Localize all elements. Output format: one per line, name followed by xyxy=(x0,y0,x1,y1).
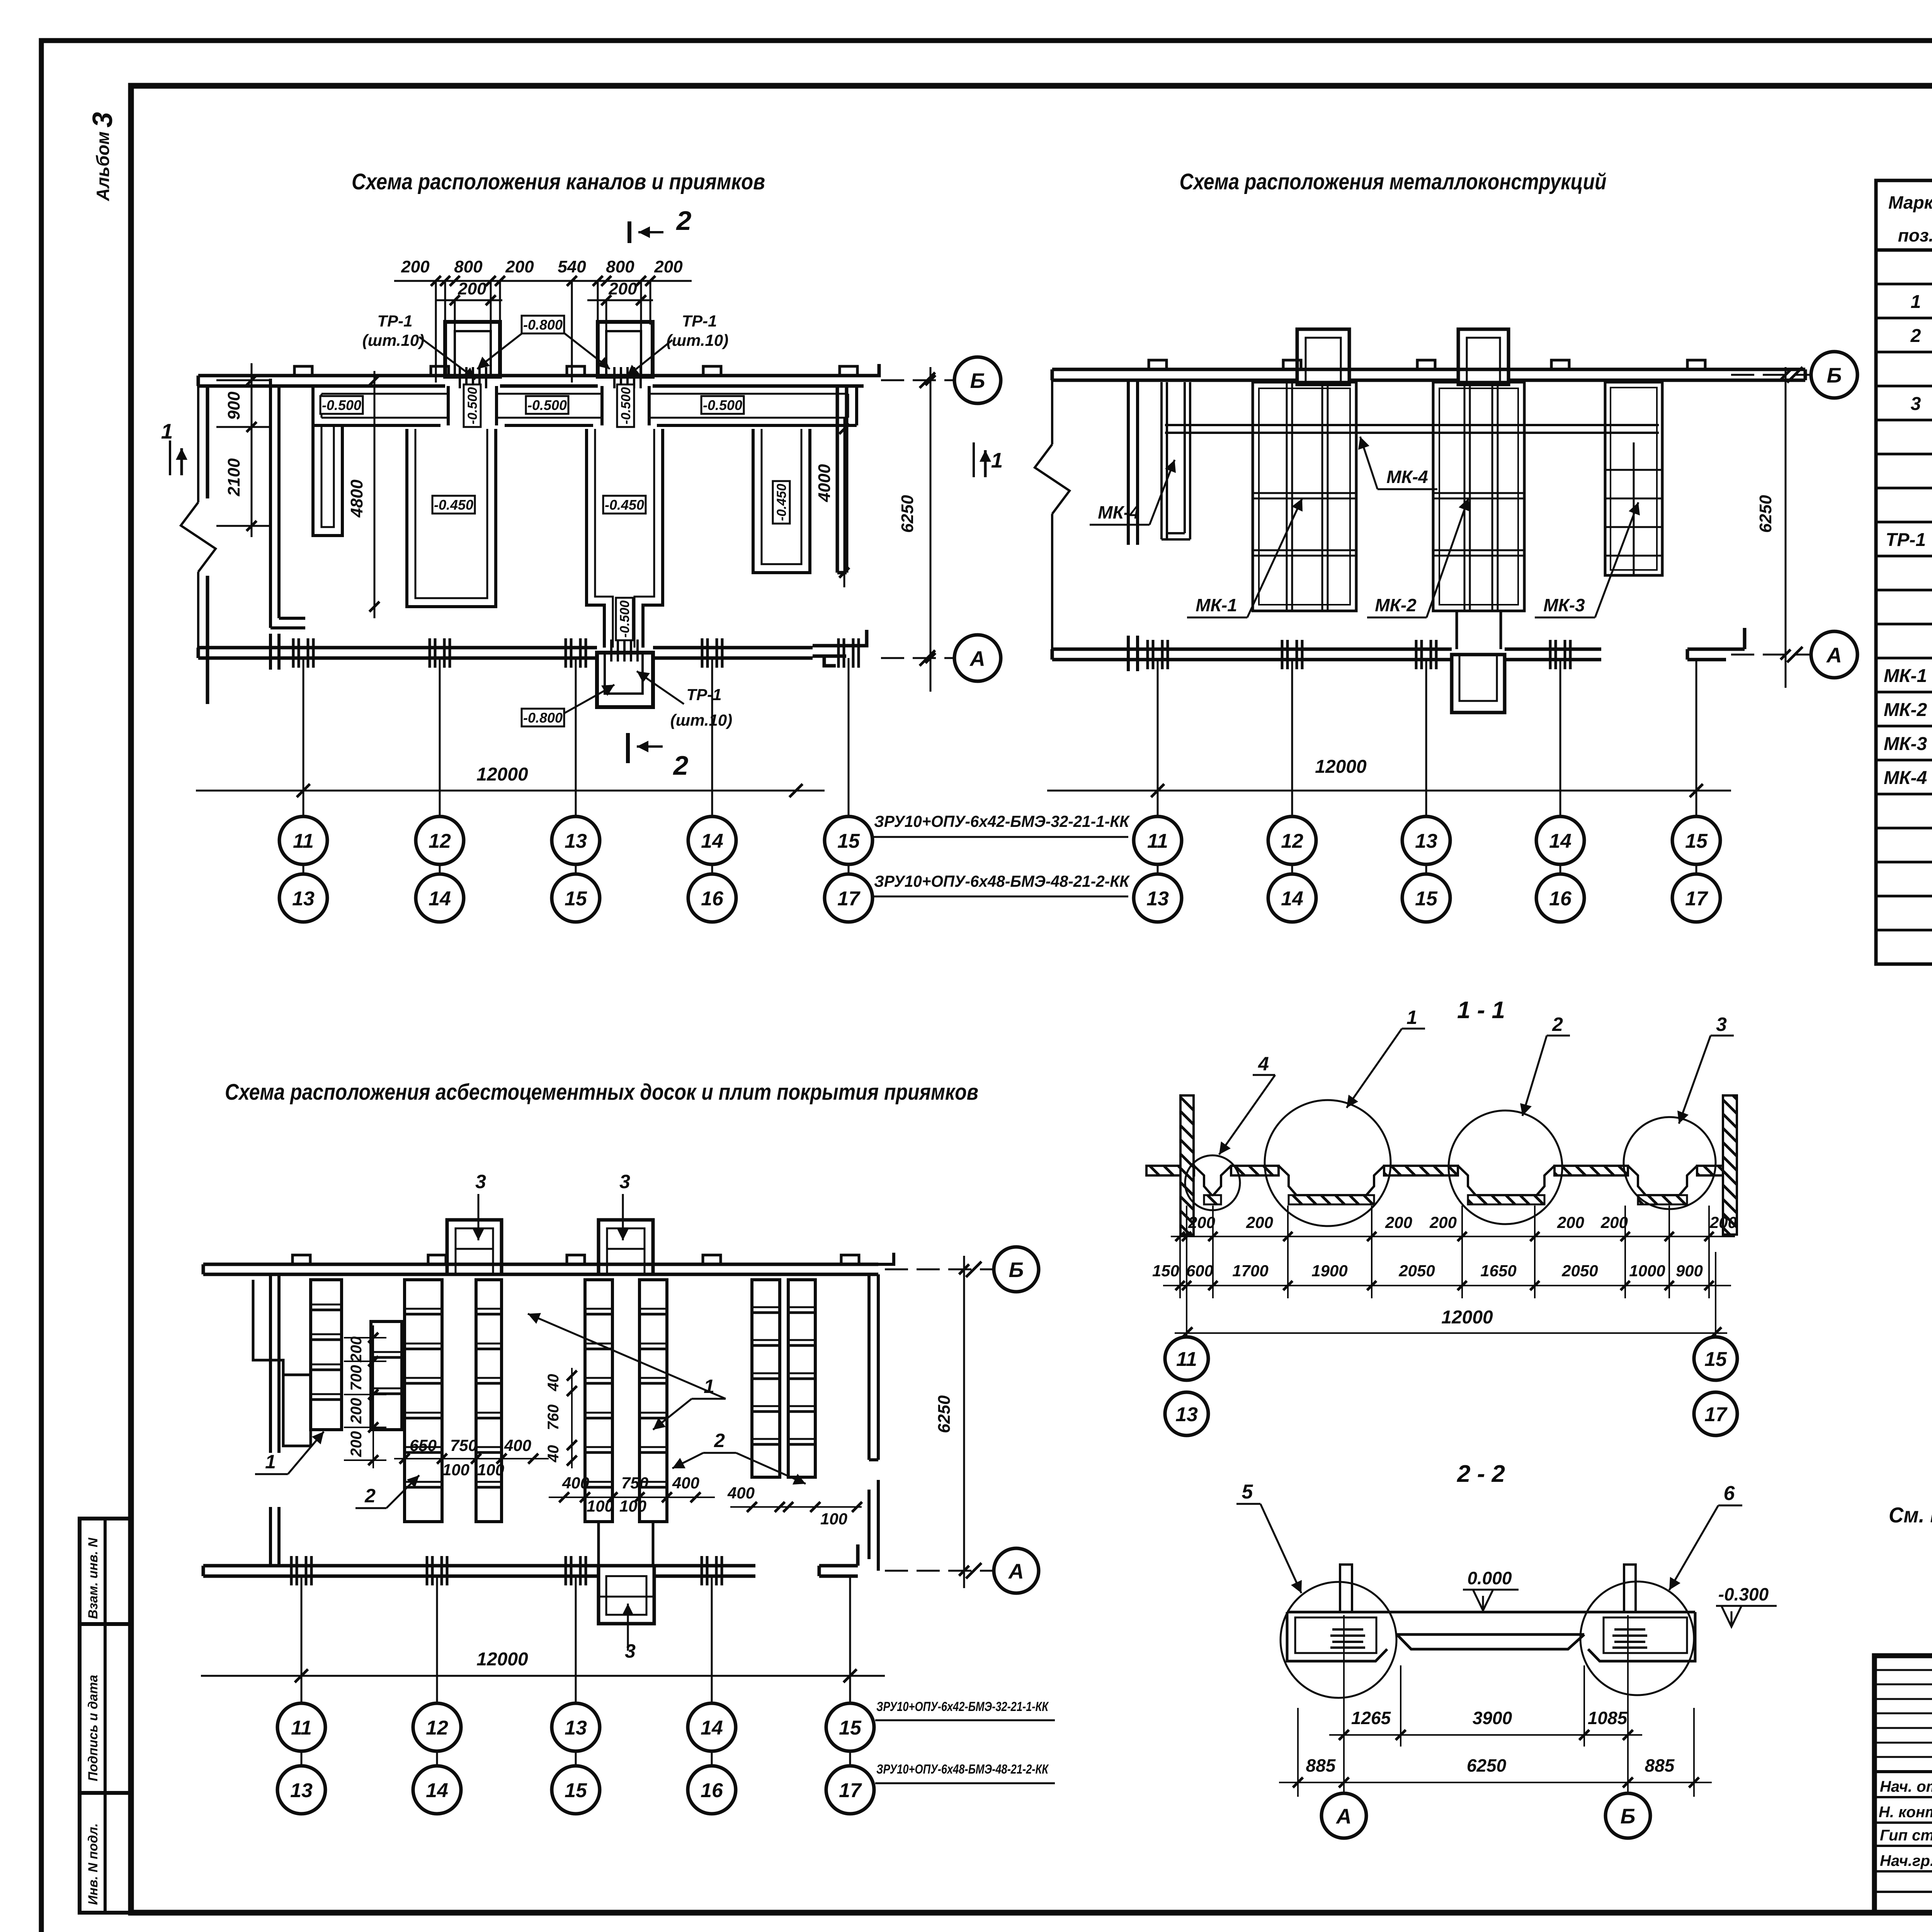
right anchor post xyxy=(1624,1565,1636,1612)
svg-text:0.000: 0.000 xyxy=(1467,1568,1512,1588)
svg-text:100: 100 xyxy=(587,1497,614,1515)
ladder 2 xyxy=(476,1280,502,1522)
svg-text:17: 17 xyxy=(839,1779,862,1802)
svg-text:МК-2: МК-2 xyxy=(1884,700,1927,720)
ladder 3 xyxy=(585,1280,612,1522)
svg-text:Схема расположения каналов и п: Схема расположения каналов и приямков xyxy=(352,169,765,194)
lower wall column mark dwg3 xyxy=(701,1556,703,1585)
svg-text:15: 15 xyxy=(565,888,587,910)
axis circle А dwg2 xyxy=(1731,654,1812,656)
svg-text:14: 14 xyxy=(426,1779,448,1802)
lower wall column mark xyxy=(837,638,840,668)
floor slab hatched xyxy=(1146,1166,1737,1175)
axis circle Б dwg3 xyxy=(885,1269,992,1270)
stamp box: Инв. N подл. xyxy=(80,1793,131,1913)
wall column tab dwg2 xyxy=(1149,360,1167,369)
right wall hatched xyxy=(1723,1095,1737,1235)
title block left columns xyxy=(1874,1656,1932,1913)
svg-text:МК-1: МК-1 xyxy=(1884,666,1927,686)
svg-text:5: 5 xyxy=(1242,1481,1253,1503)
top wall (axis Б) xyxy=(198,376,864,704)
svg-text:1: 1 xyxy=(161,419,173,443)
wall column tab xyxy=(840,366,857,376)
svg-text:14: 14 xyxy=(701,830,723,852)
svg-text:2100: 2100 xyxy=(224,458,243,497)
svg-text:6250: 6250 xyxy=(1467,1755,1507,1776)
left anchor post xyxy=(1340,1565,1352,1612)
svg-text:-0.300: -0.300 xyxy=(1718,1584,1769,1604)
svg-text:900: 900 xyxy=(1676,1262,1703,1280)
svg-text:1000: 1000 xyxy=(1629,1262,1665,1280)
svg-text:-0.800: -0.800 xyxy=(523,710,563,726)
svg-text:13: 13 xyxy=(565,1717,587,1739)
svg-text:12: 12 xyxy=(1281,830,1303,852)
svg-text:200: 200 xyxy=(1557,1213,1584,1231)
grid circles dwg2 row 1 xyxy=(1134,816,1182,864)
dim line 12000 xyxy=(196,790,825,792)
svg-text:МК-4: МК-4 xyxy=(1098,502,1139,522)
left break symbol xyxy=(181,502,216,572)
lower wall column mark dwg2 xyxy=(1415,640,1418,669)
dim 12000 section 1-1 xyxy=(1186,1252,1187,1338)
svg-text:ЗРУ10+ОПУ-6х48-БМЭ-48-21-2-КК: ЗРУ10+ОПУ-6х48-БМЭ-48-21-2-КК xyxy=(876,1762,1049,1777)
svg-text:Нач. отд.: Нач. отд. xyxy=(1880,1778,1932,1795)
svg-text:17: 17 xyxy=(1704,1403,1728,1426)
svg-text:11: 11 xyxy=(1176,1348,1197,1371)
vertical dim 6250 dwg3 xyxy=(963,1256,965,1588)
stamp box: Взам. инв. N xyxy=(80,1519,131,1624)
wall column tab xyxy=(703,366,721,376)
svg-text:15: 15 xyxy=(1704,1348,1727,1371)
svg-text:13: 13 xyxy=(1146,888,1169,910)
dim line 12000 dwg2 xyxy=(1047,790,1731,792)
svg-text:2: 2 xyxy=(1910,326,1921,346)
svg-text:2050: 2050 xyxy=(1398,1262,1435,1280)
svg-text:-0.500: -0.500 xyxy=(617,600,632,638)
МК-4 left post xyxy=(1162,382,1190,539)
lower wall column mark xyxy=(701,638,704,668)
svg-text:150: 150 xyxy=(1152,1262,1179,1280)
ladder 4 xyxy=(639,1280,667,1522)
wall column tab dwg3 xyxy=(567,1255,585,1264)
svg-text:750: 750 xyxy=(621,1474,648,1492)
svg-text:ЗРУ10+ОПУ-6х42-БМЭ-32-21-1-КК: ЗРУ10+ОПУ-6х42-БМЭ-32-21-1-КК xyxy=(876,1699,1049,1714)
channel strip -0.500 xyxy=(313,386,857,425)
svg-text:ЗРУ10+ОПУ-6х42-БМЭ-32-21-1-КК: ЗРУ10+ОПУ-6х42-БМЭ-32-21-1-КК xyxy=(874,812,1130,830)
svg-text:200: 200 xyxy=(348,1398,365,1424)
svg-text:400: 400 xyxy=(504,1436,531,1454)
svg-text:200: 200 xyxy=(505,257,534,276)
svg-text:(шт.10): (шт.10) xyxy=(670,711,733,729)
svg-text:15: 15 xyxy=(565,1779,587,1802)
svg-text:1650: 1650 xyxy=(1480,1262,1516,1280)
lower wall column mark dwg2 xyxy=(1146,640,1149,669)
rotated dims left 200/700/200/200 xyxy=(344,1325,386,1468)
specification table grid xyxy=(1876,180,1932,964)
row 3: Плита П10.5 xyxy=(1911,391,1932,414)
lower wall column mark dwg2 xyxy=(1281,640,1284,669)
vertical dim 6250 dwg2 xyxy=(1785,367,1787,688)
top wall (axis Б) dwg2 xyxy=(1052,369,1805,380)
svg-text:(шт.10): (шт.10) xyxy=(362,331,425,349)
svg-text:650: 650 xyxy=(410,1436,437,1454)
svg-text:6250: 6250 xyxy=(1756,495,1775,533)
signature rows xyxy=(1874,1797,1932,1892)
pit below lower wall xyxy=(597,653,653,707)
axis circle А (drawing 1) xyxy=(881,657,954,659)
grid circles row 2 (13-17) xyxy=(279,874,327,922)
wall column tab dwg3 xyxy=(703,1255,721,1264)
svg-text:1: 1 xyxy=(1406,1007,1417,1028)
svg-text:200: 200 xyxy=(1429,1213,1457,1231)
svg-text:13: 13 xyxy=(290,1779,313,1802)
signature row labels xyxy=(1879,1778,1932,1869)
svg-text:3: 3 xyxy=(1911,394,1921,414)
svg-text:Подпись и дата: Подпись и дата xyxy=(86,1675,100,1781)
svg-text:760: 760 xyxy=(545,1405,562,1430)
svg-text:6: 6 xyxy=(1724,1482,1735,1505)
lower wall column mark dwg3 xyxy=(426,1556,429,1585)
lower wall (axis А) dwg2 xyxy=(1052,628,1745,660)
svg-text:1900: 1900 xyxy=(1311,1262,1347,1280)
svg-text:А: А xyxy=(1335,1804,1352,1828)
grid circles dwg3 row 2 xyxy=(277,1766,325,1814)
svg-text:поз.: поз. xyxy=(1898,225,1932,245)
svg-text:1 - 1: 1 - 1 xyxy=(1457,997,1505,1024)
top pit 2 dwg2 xyxy=(1458,329,1509,384)
svg-text:См. вместе с листами АС-41, 43: См. вместе с листами АС-41, 43 xyxy=(1889,1503,1932,1527)
svg-text:Марка: Марка xyxy=(1888,192,1932,213)
wall column tab xyxy=(431,366,449,376)
МК-4 longitudinal beam xyxy=(1165,424,1659,426)
svg-text:40: 40 xyxy=(545,1445,562,1463)
wall column tab dwg3 xyxy=(428,1255,446,1264)
section mark 1 (right) xyxy=(973,442,975,477)
section mark 2 (bottom) xyxy=(626,733,630,763)
svg-text:3: 3 xyxy=(625,1640,636,1662)
svg-text:12000: 12000 xyxy=(476,764,528,785)
lower wall (axis А) dwg3 xyxy=(203,1544,858,1576)
left stepped boards xyxy=(311,1280,342,1430)
wall column tab dwg2 xyxy=(1551,360,1569,369)
lower wall column mark xyxy=(292,638,295,668)
svg-text:МК-4: МК-4 xyxy=(1884,768,1927,788)
wall column tab dwg2 xyxy=(1283,360,1301,369)
svg-text:17: 17 xyxy=(1685,888,1708,910)
svg-text:800: 800 xyxy=(606,257,634,276)
svg-text:Нач.гр.: Нач.гр. xyxy=(1880,1852,1932,1869)
lower wall column mark xyxy=(565,638,567,668)
svg-text:11: 11 xyxy=(1147,830,1168,852)
wall column tab xyxy=(567,366,585,376)
svg-text:14: 14 xyxy=(1549,830,1571,852)
dims 400 100 right xyxy=(730,1506,862,1508)
svg-text:А: А xyxy=(1008,1559,1024,1583)
svg-text:200: 200 xyxy=(1600,1213,1628,1231)
svg-text:Б: Б xyxy=(1827,363,1842,387)
svg-text:Схема расположения металлоконс: Схема расположения металлоконструкций xyxy=(1180,169,1607,194)
grid circles dwg3 row 1 xyxy=(277,1703,325,1751)
svg-text:16: 16 xyxy=(701,1779,723,1802)
svg-text:Б: Б xyxy=(1621,1804,1636,1828)
svg-text:ТР-1: ТР-1 xyxy=(1886,530,1926,550)
svg-text:-0.500: -0.500 xyxy=(527,397,567,413)
svg-text:200: 200 xyxy=(608,279,637,298)
slab profile xyxy=(1287,1612,1695,1649)
svg-text:Б: Б xyxy=(970,369,985,393)
grid verticals to circles xyxy=(303,658,849,874)
pit 2 (detail 1) xyxy=(1279,1166,1384,1195)
main title block frame xyxy=(1874,1656,1932,1913)
svg-text:МК-3: МК-3 xyxy=(1543,595,1585,615)
wall column tab dwg2 xyxy=(1417,360,1435,369)
svg-text:100: 100 xyxy=(820,1510,847,1528)
svg-text:(шт.10): (шт.10) xyxy=(667,331,729,349)
svg-text:-0.450: -0.450 xyxy=(434,497,473,513)
left partition wall dwg3 xyxy=(270,1274,279,1453)
axis circle Б dwg2 xyxy=(1731,374,1812,376)
svg-text:600: 600 xyxy=(1186,1262,1213,1280)
rows МК-1..МК-4 xyxy=(1884,666,1932,788)
svg-text:100: 100 xyxy=(442,1461,469,1479)
МК-3 frame xyxy=(1605,382,1662,575)
wall column tab dwg3 xyxy=(841,1255,859,1264)
svg-text:100: 100 xyxy=(477,1461,504,1479)
svg-text:200: 200 xyxy=(1246,1213,1273,1231)
svg-text:3: 3 xyxy=(619,1171,630,1192)
section mark 2 (top) xyxy=(628,221,631,243)
svg-text:Инв. N подл.: Инв. N подл. xyxy=(86,1823,100,1905)
right end wall dwg3 xyxy=(869,1253,894,1460)
svg-text:17: 17 xyxy=(837,888,861,910)
svg-text:-0.500: -0.500 xyxy=(703,397,742,413)
svg-text:МК-2: МК-2 xyxy=(1375,595,1417,615)
svg-text:700: 700 xyxy=(348,1365,365,1391)
bottom pit dwg3 xyxy=(599,1522,653,1566)
dim line 12000 dwg3 xyxy=(201,1675,885,1677)
svg-text:2 - 2: 2 - 2 xyxy=(1457,1461,1505,1487)
svg-text:1: 1 xyxy=(265,1451,276,1473)
table header labels xyxy=(1888,192,1932,247)
svg-text:А: А xyxy=(969,646,985,670)
top pit 1 dwg3 (pos 3) xyxy=(447,1220,502,1274)
svg-text:200: 200 xyxy=(401,257,430,276)
top pit 1 (ТР-1) xyxy=(445,322,500,377)
vertical dim 6250 xyxy=(930,367,932,692)
svg-text:2050: 2050 xyxy=(1561,1262,1598,1280)
svg-text:1: 1 xyxy=(991,448,1003,472)
svg-text:МК-1: МК-1 xyxy=(1196,595,1237,615)
left partition wall xyxy=(270,379,305,628)
svg-text:14: 14 xyxy=(701,1717,723,1739)
lower wall (axis А) xyxy=(198,630,867,666)
left partition wall dwg2 xyxy=(1128,380,1138,545)
vertical dim 4000 xyxy=(844,417,845,587)
svg-text:16: 16 xyxy=(1549,888,1572,910)
svg-text:4: 4 xyxy=(1258,1053,1269,1075)
extension lines + dim row 200 xyxy=(1171,1206,1735,1298)
svg-text:Б: Б xyxy=(1009,1258,1024,1282)
lower wall column mark dwg3 xyxy=(565,1556,567,1585)
svg-text:-0.450: -0.450 xyxy=(774,484,789,521)
svg-text:3: 3 xyxy=(1716,1014,1727,1035)
svg-text:13: 13 xyxy=(1175,1403,1198,1426)
ladder 5 xyxy=(752,1280,780,1477)
dim row 200-800-200 540-800-200 xyxy=(394,281,692,383)
svg-text:200: 200 xyxy=(348,1431,365,1458)
svg-text:14: 14 xyxy=(1281,888,1303,910)
top pit 2 dwg3 (pos 3) xyxy=(599,1220,653,1274)
svg-text:885: 885 xyxy=(1645,1755,1675,1776)
stamp box: Подпись и дата xyxy=(80,1624,131,1793)
svg-text:-0.450: -0.450 xyxy=(605,497,644,513)
МК-2 south channel + pit xyxy=(1457,611,1501,649)
МК-2 frame xyxy=(1433,382,1524,611)
wall column tab dwg2 xyxy=(1687,360,1705,369)
left break symbol dwg2 xyxy=(1035,380,1070,649)
album label: Альбом 3 xyxy=(87,112,118,201)
svg-text:900: 900 xyxy=(224,391,243,420)
svg-text:1265: 1265 xyxy=(1351,1708,1391,1728)
svg-text:2: 2 xyxy=(1552,1014,1563,1035)
lower wall column mark dwg3 xyxy=(290,1556,293,1585)
svg-text:15: 15 xyxy=(839,1717,862,1739)
svg-text:4800: 4800 xyxy=(347,480,366,518)
U-channel 1 xyxy=(407,429,496,607)
dims 1265/3900/1085 xyxy=(1329,1615,1642,1808)
svg-text:2: 2 xyxy=(673,750,689,781)
rotated dims 40 760 40 xyxy=(571,1368,573,1468)
svg-text:12: 12 xyxy=(429,830,451,852)
svg-text:400: 400 xyxy=(672,1474,699,1492)
pit 3 (detail 2) xyxy=(1458,1166,1554,1195)
svg-text:13: 13 xyxy=(292,888,315,910)
svg-text:885: 885 xyxy=(1306,1755,1336,1776)
svg-text:-0.500: -0.500 xyxy=(465,387,480,424)
dims 400 750 400 / 100 100 xyxy=(549,1497,715,1498)
svg-text:12000: 12000 xyxy=(1315,757,1367,777)
ladder 1 xyxy=(405,1280,442,1522)
svg-text:11: 11 xyxy=(293,830,314,852)
svg-text:40: 40 xyxy=(545,1374,562,1392)
svg-text:100: 100 xyxy=(619,1497,646,1515)
vertical dim chain 900/2100 xyxy=(216,363,270,537)
svg-text:11: 11 xyxy=(291,1717,312,1739)
level box -0.800 (top) xyxy=(522,316,564,333)
top pit 2 (ТР-1) xyxy=(598,322,653,377)
dims 650 750 400 / 100 100 xyxy=(394,1458,549,1459)
svg-text:15: 15 xyxy=(837,830,860,852)
svg-text:Схема расположения асбестоцеме: Схема расположения асбестоцементных досо… xyxy=(225,1080,978,1105)
svg-text:200: 200 xyxy=(1188,1213,1215,1231)
svg-text:6250: 6250 xyxy=(898,495,917,533)
svg-text:13: 13 xyxy=(1415,830,1437,852)
svg-text:200: 200 xyxy=(654,257,683,276)
svg-text:Гип стр.: Гип стр. xyxy=(1880,1827,1932,1844)
svg-text:-0.500: -0.500 xyxy=(619,387,633,424)
left end pit 2-2 xyxy=(1287,1612,1387,1661)
right end wall corner xyxy=(837,364,879,573)
svg-text:МК-3: МК-3 xyxy=(1884,734,1927,754)
U-channel 3 (right) xyxy=(753,429,810,573)
left wall hatched xyxy=(1180,1095,1194,1235)
svg-text:15: 15 xyxy=(1415,888,1438,910)
svg-text:400: 400 xyxy=(562,1474,589,1492)
svg-text:540: 540 xyxy=(558,257,586,276)
svg-text:МК-4: МК-4 xyxy=(1386,467,1428,487)
level boxes -0.500 row xyxy=(320,396,363,414)
svg-text:800: 800 xyxy=(454,257,483,276)
grid verticals dwg2 xyxy=(1158,660,1696,874)
top wall (axis Б) dwg3 xyxy=(203,1264,878,1274)
small box column xyxy=(371,1321,402,1430)
svg-text:750: 750 xyxy=(450,1436,477,1454)
axis circle А dwg3 xyxy=(885,1570,992,1572)
grid circles row 1 (11-15) xyxy=(279,816,327,864)
vertical connector channels through wall xyxy=(448,386,649,425)
svg-text:Взам. инв. N: Взам. инв. N xyxy=(86,1537,100,1619)
svg-text:3900: 3900 xyxy=(1473,1708,1512,1728)
ladder 6 (right wide) xyxy=(788,1280,815,1477)
svg-text:-0.800: -0.800 xyxy=(523,317,563,333)
svg-text:Альбом: Альбом xyxy=(93,131,113,201)
svg-text:12000: 12000 xyxy=(476,1649,528,1670)
axis circle Б (drawing 1) xyxy=(881,379,954,381)
svg-text:ЗРУ10+ОПУ-6х48-БМЭ-48-21-2-КК: ЗРУ10+ОПУ-6х48-БМЭ-48-21-2-КК xyxy=(874,872,1130,890)
row ТР-1: БНТ 100 L=300 xyxy=(1886,530,1932,550)
svg-text:3: 3 xyxy=(475,1171,486,1192)
svg-text:1: 1 xyxy=(1911,292,1921,312)
svg-text:-0.500: -0.500 xyxy=(322,397,361,413)
svg-text:12: 12 xyxy=(426,1717,448,1739)
svg-text:6250: 6250 xyxy=(935,1395,954,1433)
svg-text:15: 15 xyxy=(1685,830,1708,852)
vertical dim 4800 xyxy=(374,371,376,618)
svg-text:2: 2 xyxy=(676,206,692,236)
wall column tab xyxy=(294,366,312,376)
svg-text:2: 2 xyxy=(364,1485,376,1507)
top pit 1 dwg2 xyxy=(1297,329,1349,384)
svg-text:ТР-1: ТР-1 xyxy=(377,312,412,330)
detail circle 5 xyxy=(1281,1582,1396,1698)
detail circles xyxy=(1185,1155,1240,1210)
svg-text:400: 400 xyxy=(727,1484,755,1502)
svg-text:ТР-1: ТР-1 xyxy=(686,685,721,704)
left end narrow channel xyxy=(313,425,342,536)
section 2-2 axis circles xyxy=(1321,1793,1366,1838)
grid circles dwg2 row 2 xyxy=(1134,874,1182,922)
svg-text:3: 3 xyxy=(87,112,118,128)
level box -0.800 (bottom) with leaders xyxy=(522,709,564,726)
svg-text:13: 13 xyxy=(565,830,587,852)
right end pit 2-2 xyxy=(1588,1612,1695,1661)
svg-text:4000: 4000 xyxy=(815,464,834,502)
svg-text:ТР-1: ТР-1 xyxy=(682,312,717,330)
lower wall column mark dwg2 xyxy=(1549,640,1552,669)
thin upper rows xyxy=(1874,1670,1932,1757)
svg-text:Н. контр.: Н. контр. xyxy=(1879,1804,1932,1821)
svg-text:200: 200 xyxy=(1385,1213,1412,1231)
wall column tab dwg3 xyxy=(293,1255,310,1264)
svg-text:200: 200 xyxy=(348,1337,365,1363)
МК-1 frame xyxy=(1253,382,1356,611)
svg-text:14: 14 xyxy=(429,888,451,910)
pipe bundle ticks xyxy=(460,367,641,388)
detail circle 6 xyxy=(1580,1582,1694,1695)
svg-text:16: 16 xyxy=(701,888,724,910)
lower wall column mark xyxy=(429,638,431,668)
grid verticals dwg3 xyxy=(301,1576,850,1766)
